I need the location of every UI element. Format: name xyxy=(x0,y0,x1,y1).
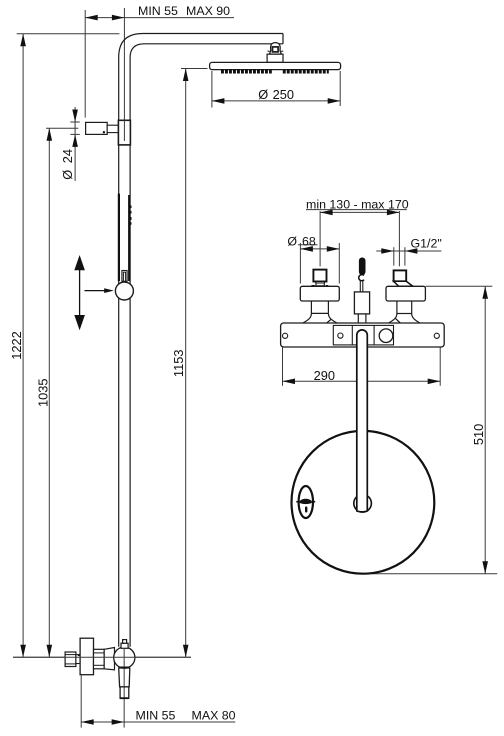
svg-text:Ø: Ø xyxy=(258,87,268,102)
svg-text:MIN 55: MIN 55 xyxy=(136,709,176,723)
svg-text:MAX 80: MAX 80 xyxy=(192,709,236,723)
svg-text:1222: 1222 xyxy=(9,331,24,359)
svg-text:Ø: Ø xyxy=(287,234,297,248)
svg-text:min 130 - max 170: min 130 - max 170 xyxy=(306,198,409,212)
svg-text:68: 68 xyxy=(302,234,316,248)
svg-text:MIN 55: MIN 55 xyxy=(138,4,178,18)
svg-text:MAX 90: MAX 90 xyxy=(186,4,230,18)
svg-text:250: 250 xyxy=(273,87,294,102)
svg-text:510: 510 xyxy=(471,424,486,445)
svg-text:1153: 1153 xyxy=(171,350,186,378)
svg-text:290: 290 xyxy=(314,368,335,383)
svg-text:1035: 1035 xyxy=(36,379,51,407)
svg-text:G1/2": G1/2" xyxy=(411,237,442,251)
